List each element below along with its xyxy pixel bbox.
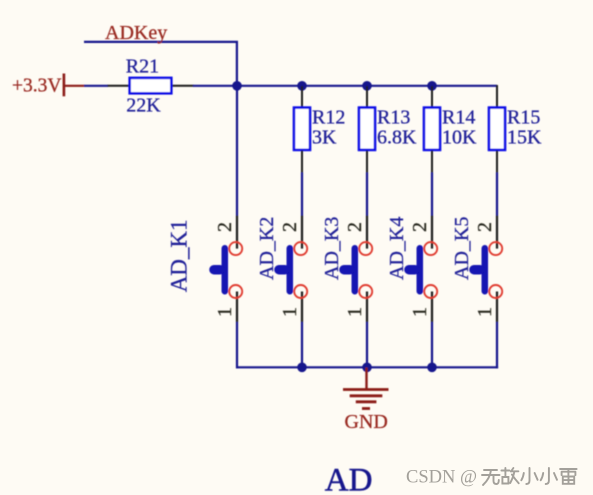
svg-text:AD_K2: AD_K2 [256, 217, 278, 280]
svg-text:1: 1 [344, 307, 366, 317]
svg-text:AD_K4: AD_K4 [386, 217, 408, 280]
svg-text:R13: R13 [377, 107, 410, 129]
svg-text:1: 1 [409, 307, 431, 317]
svg-text:2: 2 [344, 222, 366, 232]
svg-text:R21: R21 [126, 55, 159, 77]
svg-text:AD_K1: AD_K1 [167, 219, 192, 292]
svg-text:6.8K: 6.8K [377, 127, 417, 149]
svg-text:R15: R15 [507, 107, 540, 129]
svg-text:2: 2 [279, 222, 301, 232]
svg-text:3K: 3K [312, 127, 337, 149]
svg-text:AD: AD [325, 463, 373, 495]
svg-text:R12: R12 [312, 107, 345, 129]
svg-text:1: 1 [474, 307, 496, 317]
svg-text:1: 1 [214, 307, 236, 317]
svg-text:CSDN @: CSDN @ [406, 468, 477, 488]
svg-text:2: 2 [474, 222, 496, 232]
svg-text:AD_K5: AD_K5 [451, 217, 473, 280]
svg-text:AD_K3: AD_K3 [321, 217, 343, 280]
svg-text:1: 1 [279, 307, 301, 317]
svg-text:10K: 10K [442, 127, 477, 149]
svg-text:22K: 22K [126, 94, 161, 116]
svg-text:2: 2 [214, 222, 236, 232]
svg-text:GND: GND [345, 411, 388, 433]
svg-text:ADKey: ADKey [105, 22, 167, 44]
svg-text:15K: 15K [507, 127, 542, 149]
svg-text:+3.3V: +3.3V [12, 76, 61, 97]
svg-text:2: 2 [409, 222, 431, 232]
svg-text:R14: R14 [442, 107, 475, 129]
